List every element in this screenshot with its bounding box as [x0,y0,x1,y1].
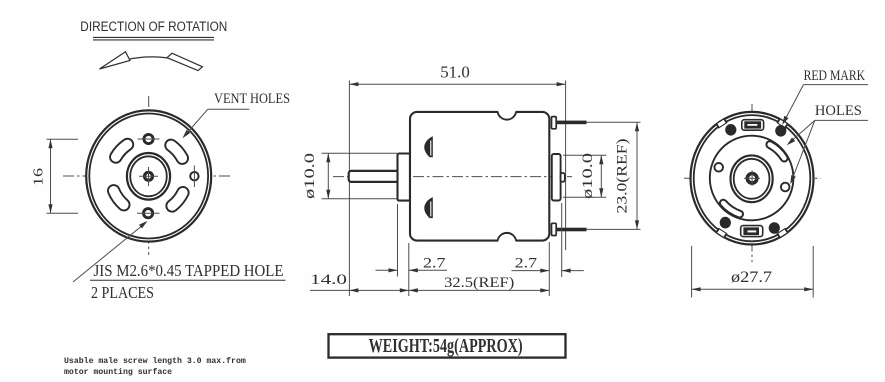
brush cap dot top-right (red mark) [775,125,786,137]
top terminal end-on [742,120,764,131]
label JIS M2.6*0.45 TAPPED HOLE leader [73,223,146,283]
brush cap dot bottom-left [720,217,731,229]
dimension 23.0 (REF) [636,122,638,229]
left view motor case outer circle [86,110,211,241]
dimension 2.7 left [376,269,398,271]
top notch [498,110,515,113]
svg-text:JIS M2.6*0.45 TAPPED HOLE: JIS M2.6*0.45 TAPPED HOLE [94,261,284,280]
dimension 51.0 [349,83,565,85]
svg-text:ø27.7: ø27.7 [731,269,772,286]
top terminal [556,121,587,125]
svg-text:2.7: 2.7 [423,255,446,271]
right view outer circle [691,112,814,245]
left view shaft circle [145,172,153,180]
case crimp tab [777,118,788,128]
left view horizontal centerline [63,175,232,177]
top terminal tab [552,117,557,129]
left view shaft crosshair [139,175,158,177]
case crimp tab [716,118,727,128]
case crimp tab [777,228,788,238]
rotation direction curved arrow [100,57,200,69]
VENT HOLES leader line [208,108,250,110]
left view hub outer circle [127,153,170,200]
HOLES leader to hole [792,120,815,181]
dimension diameter 27.7 extension lines [691,246,693,298]
left view right pilot hole [190,172,198,180]
right view vertical centerline [751,104,753,262]
svg-text:2.7: 2.7 [515,255,538,271]
svg-text:51.0: 51.0 [440,62,470,81]
case crimp tab [716,228,727,238]
svg-text:23.0(REF): 23.0(REF) [615,138,631,213]
double underline [93,36,214,38]
right view inner rim circle [694,115,811,241]
svg-text:VENT HOLES: VENT HOLES [214,91,290,107]
right view hub inner circle [734,159,770,199]
51.0 right extension line [565,81,567,251]
brush cap dot bottom-right [769,222,780,234]
dimension left diameter 10.0 [327,153,329,199]
svg-text:Usable male screw length 3.0 m: Usable male screw length 3.0 max.from [64,356,246,366]
svg-text:HOLES: HOLES [815,103,862,119]
svg-text:WEIGHT:54g(APPROX): WEIGHT:54g(APPROX) [369,336,523,357]
dimension 32.5 (REF) [409,289,550,291]
dimension diameter 27.7 [692,288,814,290]
front mounting flange [398,154,411,201]
bottom terminal end-on [741,226,763,237]
left view vent slot top-right [171,145,182,158]
body centerline dash through can [413,176,568,178]
left view bottom tapped hole [144,209,153,218]
left view vent slot bottom-left [114,191,124,205]
motor shaft [349,171,399,182]
left view motor case inner circle [89,114,208,239]
left view vertical centerline [148,96,150,255]
bottom terminal [556,228,587,232]
top vent mark [424,136,433,157]
RED MARK leader [784,85,804,123]
bottom notch [498,239,515,242]
left view vent slot top-left [116,145,128,158]
2.7 left extension lines [397,204,399,277]
small hole left [714,163,723,172]
left view hub inner circle [130,156,167,196]
svg-text:16: 16 [32,168,47,186]
left view vent slot bottom-right [172,193,183,206]
rear bearing nub [561,173,565,182]
rear bearing boss [552,154,561,201]
svg-text:ø10.0: ø10.0 [580,153,596,199]
2.7 right extension lines [548,242,550,296]
dimension 16 extension lines [47,138,79,140]
left view top tapped hole [144,134,153,143]
svg-text:32.5(REF): 32.5(REF) [444,275,514,291]
bottom vent mark [424,197,433,218]
dimension right diameter 10.0 extension lines [563,154,606,156]
bottom terminal tab [552,223,557,235]
small hole right [781,183,790,192]
51.0 left extension line (shaft tip) [348,81,350,297]
svg-text:motor mounting surface: motor mounting surface [64,367,172,377]
svg-text:RED MARK: RED MARK [804,68,866,84]
svg-text:14.0: 14.0 [310,272,347,288]
right view shaft end [747,174,757,184]
middle view horizontal centerline [333,176,572,178]
right view kidney slot top-right [770,145,784,159]
HOLES leader to slot [789,120,815,143]
dimension 2.7 right [512,270,550,272]
dimension right diameter 10.0 [600,155,602,197]
23.0 top extension line [587,121,641,123]
brush cap dot top-left [725,124,736,136]
svg-text:2 PLACES: 2 PLACES [91,283,154,302]
dimension 16 line and arrows [50,139,52,213]
23.0 bottom extension line [587,228,641,230]
dimension left diameter 10.0 extension lines [322,152,398,154]
svg-text:ø10.0: ø10.0 [302,153,318,199]
dimension 14.0 [310,289,409,291]
right view horizontal centerline [684,177,821,179]
weight box [329,334,566,357]
right view end cap circle [710,136,794,221]
right view hub outer circle [731,155,773,202]
right view kidney slot bottom-left [723,203,739,214]
motor body (can) [410,112,549,241]
svg-text:DIRECTION OF ROTATION: DIRECTION OF ROTATION [80,19,227,34]
